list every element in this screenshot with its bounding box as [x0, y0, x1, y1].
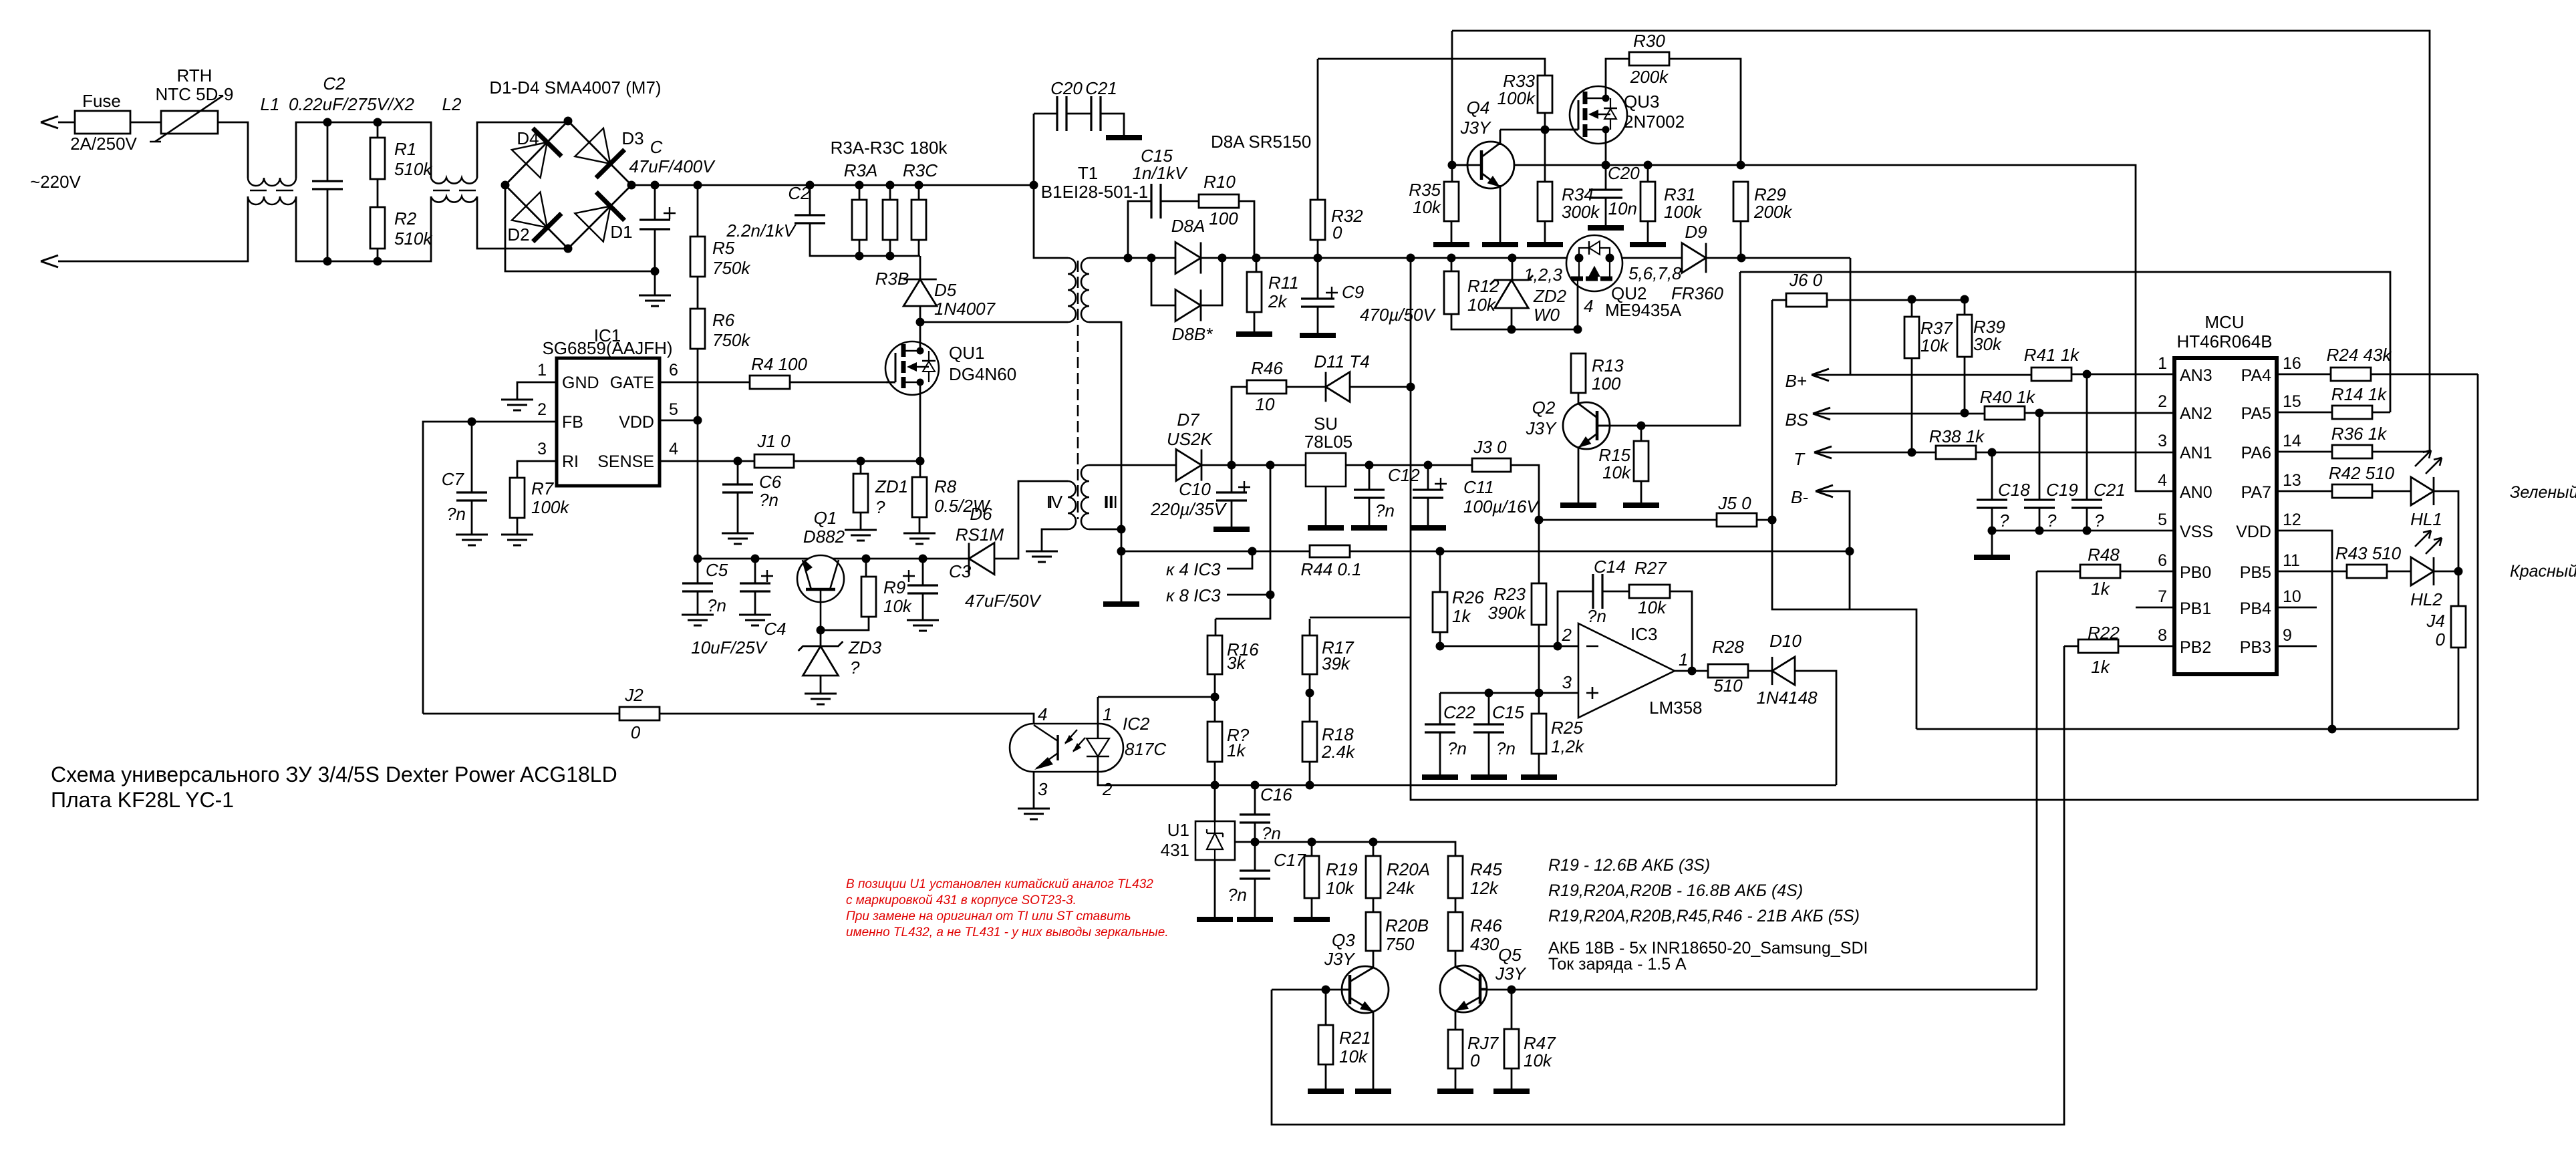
svg-text:R26: R26 [1452, 587, 1484, 607]
svg-text:C14: C14 [1594, 557, 1626, 577]
svg-text:300k: 300k [1562, 202, 1600, 222]
svg-text:Q3: Q3 [1332, 930, 1355, 950]
svg-text:R2: R2 [394, 208, 417, 229]
svg-text:T: T [1794, 449, 1806, 469]
ground [1623, 502, 1659, 508]
wire BS line to R14 PA5 [1740, 272, 2390, 412]
wire PB1 stub [2136, 607, 2174, 609]
junction [1365, 461, 1374, 470]
svg-text:430: 430 [1470, 934, 1499, 954]
junction [374, 118, 382, 127]
wire [994, 481, 1068, 559]
ground [1325, 486, 1327, 526]
svg-text:431: 431 [1161, 840, 1189, 860]
svg-text:10k: 10k [1638, 597, 1667, 617]
wire Q4 collector [1499, 130, 1501, 145]
junction [1308, 838, 1316, 847]
svg-text:J3Y: J3Y [1324, 949, 1355, 969]
junction [1124, 254, 1133, 263]
resistor R23 390k [1532, 583, 1546, 625]
wire Q2 base line [1597, 272, 1740, 426]
svg-text:PB0: PB0 [2180, 563, 2211, 582]
capacitor C4 10uF/25V [754, 559, 756, 583]
wire III bottom [1089, 529, 1121, 531]
svg-text:L2: L2 [442, 94, 462, 114]
wire Q3 base line [1272, 989, 1350, 991]
svg-text:C15: C15 [1492, 702, 1524, 722]
svg-text:1n/1kV: 1n/1kV [1133, 163, 1189, 183]
svg-text:4: 4 [1584, 296, 1593, 316]
junction [1251, 838, 1260, 847]
svg-text:Q5: Q5 [1498, 945, 1522, 965]
svg-text:C4: C4 [764, 619, 786, 639]
svg-text:R46: R46 [1251, 358, 1283, 378]
svg-text:C12: C12 [1388, 465, 1420, 485]
svg-text:R9: R9 [883, 577, 905, 597]
svg-text:7: 7 [2158, 587, 2167, 606]
svg-text:R6: R6 [712, 310, 735, 330]
svg-text:R42 510: R42 510 [2329, 463, 2395, 483]
svg-text:Плата KF28L YC-1: Плата KF28L YC-1 [51, 788, 234, 812]
svg-text:15: 15 [2283, 392, 2301, 411]
wire R20B to Q3 collector [1373, 951, 1375, 968]
svg-text:PB5: PB5 [2240, 563, 2271, 582]
svg-text:1,2,3: 1,2,3 [1524, 265, 1562, 285]
junction [1228, 461, 1236, 470]
svg-text:R41 1k: R41 1k [2024, 345, 2080, 365]
wire II bottom to return [1089, 322, 1121, 604]
svg-text:RTH: RTH [177, 65, 212, 86]
svg-text:R3A-R3C 180k: R3A-R3C 180k [831, 138, 948, 158]
svg-text:0: 0 [2436, 629, 2446, 650]
svg-text:10k: 10k [1524, 1050, 1553, 1070]
wire gate line [1500, 129, 1578, 131]
svg-text:D8A: D8A [1171, 216, 1205, 236]
junction FB node [468, 418, 476, 426]
diode D2 [512, 192, 547, 227]
svg-text:78L05: 78L05 [1304, 432, 1352, 452]
svg-text:1,2k: 1,2k [1551, 736, 1585, 756]
svg-text:2.4k: 2.4k [1321, 742, 1356, 762]
svg-text:4: 4 [2158, 471, 2167, 490]
resistor R37 10k [1911, 299, 1913, 317]
svg-text:T1: T1 [1078, 163, 1098, 183]
wire Q5 emitter to RJ7 [1455, 1011, 1457, 1030]
resistor R47 10k [1511, 990, 1513, 1029]
wire source line 247 [1452, 164, 1467, 166]
svg-text:817C: 817C [1125, 739, 1166, 759]
svg-text:SU: SU [1314, 414, 1338, 434]
svg-text:BS: BS [1785, 410, 1808, 430]
resistor R18 2.4k [1302, 722, 1317, 762]
svg-text:1k: 1k [1452, 606, 1471, 626]
svg-text:Q4: Q4 [1467, 98, 1490, 118]
svg-text:R20B: R20B [1385, 915, 1429, 935]
svg-text:0: 0 [1332, 223, 1342, 243]
capacitor C5 ?n [697, 559, 699, 583]
svg-text:D8B*: D8B* [1172, 324, 1213, 344]
junction [1644, 161, 1653, 170]
svg-text:3: 3 [2158, 432, 2167, 450]
svg-text:2N7002: 2N7002 [1624, 112, 1685, 132]
wire R16 top [1215, 619, 1217, 635]
core [1077, 261, 1079, 519]
svg-text:?n: ?n [707, 595, 726, 615]
ground [1294, 917, 1330, 922]
junction divider tap [1306, 689, 1314, 698]
svg-text:J4: J4 [2426, 611, 2445, 631]
svg-text:10k: 10k [1413, 197, 1442, 217]
junction [2083, 370, 2092, 379]
svg-text:1k: 1k [1227, 740, 1246, 760]
wire III top [1089, 464, 1176, 466]
svg-text:RS1M: RS1M [956, 525, 1004, 545]
transistor QU1 DG4N60 mosfet [885, 341, 939, 395]
resistor R34 300k [1538, 182, 1552, 221]
svg-text:к 4 IC3: к 4 IC3 [1166, 559, 1221, 579]
svg-text:ME9435A: ME9435A [1605, 300, 1682, 320]
svg-text:US2K: US2K [1167, 429, 1213, 449]
capacitor C11 100u/16V [1427, 465, 1429, 490]
wire VDD row [2277, 531, 2332, 729]
svg-text:10k: 10k [1602, 462, 1632, 482]
svg-text:10k: 10k [1339, 1046, 1369, 1066]
resistor R20B 750 [1373, 898, 1375, 912]
svg-text:III: III [1103, 492, 1118, 512]
svg-text:D7: D7 [1177, 410, 1200, 430]
svg-text:?: ? [2094, 511, 2104, 531]
svg-text:39k: 39k [1322, 654, 1351, 674]
ground [1521, 774, 1557, 780]
svg-text:L1: L1 [261, 94, 280, 114]
svg-text:При замене на оригинал от TI и: При замене на оригинал от TI или ST став… [846, 909, 1131, 923]
svg-text:VSS: VSS [2180, 523, 2213, 541]
svg-text:510: 510 [1713, 676, 1743, 696]
svg-text:B1EI28-501-1: B1EI28-501-1 [1041, 182, 1148, 202]
ground [1422, 774, 1458, 780]
wire [631, 184, 1034, 186]
svg-text:100µ/16V: 100µ/16V [1463, 496, 1540, 517]
junction [1211, 693, 1220, 702]
svg-text:R46: R46 [1470, 915, 1502, 935]
svg-text:GND: GND [562, 374, 599, 392]
svg-text:11: 11 [2283, 551, 2300, 570]
svg-text:100: 100 [1209, 208, 1238, 229]
junction [564, 117, 573, 126]
junction [734, 457, 742, 466]
svg-text:C18: C18 [1998, 480, 2030, 500]
ground [456, 535, 488, 545]
junction [1535, 689, 1544, 698]
svg-text:10k: 10k [883, 596, 913, 616]
op-amp IC3 LM358 [1578, 623, 1675, 718]
zener ZD1 ? [853, 474, 868, 513]
svg-text:C2: C2 [323, 74, 345, 94]
wire [1201, 464, 1306, 466]
junction [1768, 516, 1777, 525]
wire Q4 emitter [1499, 185, 1501, 242]
wire Q2 emitter [1578, 448, 1580, 502]
svg-text:J3 0: J3 0 [1473, 437, 1507, 457]
svg-text:1N4007: 1N4007 [934, 299, 996, 319]
wire D10 to feedback [1795, 671, 1836, 785]
wire QU3 source [1605, 130, 1607, 165]
wire R32 top line to R33 [1318, 59, 1545, 76]
wire drain to T1 primary bottom [920, 321, 1068, 323]
wire k8 vertical [1215, 465, 1270, 619]
ground [1026, 551, 1058, 562]
svg-text:R28: R28 [1712, 637, 1744, 657]
svg-text:AN1: AN1 [2180, 444, 2212, 462]
junction [1407, 383, 1415, 392]
ground [1018, 809, 1050, 819]
resistor R12 10k [1451, 258, 1453, 271]
resistor R7 100k [510, 478, 525, 518]
junction base node [817, 626, 825, 635]
svg-text:C9: C9 [1342, 282, 1364, 302]
svg-text:10n: 10n [1608, 198, 1637, 219]
junction [1248, 547, 1257, 556]
resistor R45 12k [1448, 856, 1463, 898]
svg-text:16: 16 [2283, 354, 2301, 373]
svg-text:SENSE: SENSE [597, 452, 654, 471]
ground [1527, 242, 1563, 247]
svg-text:C20: C20 [1608, 163, 1640, 183]
svg-text:R1: R1 [394, 139, 416, 159]
junction [1988, 527, 1997, 535]
resistor R11 2k [1256, 258, 1258, 272]
svg-text:4: 4 [1038, 704, 1047, 724]
svg-text:U1: U1 [1167, 820, 1189, 840]
svg-text:J5 0: J5 0 [1717, 493, 1751, 513]
svg-text:?: ? [1999, 511, 2009, 531]
junction [1908, 295, 1916, 304]
svg-text:R19: R19 [1326, 859, 1358, 879]
wire VDD vertical [697, 349, 699, 559]
svg-text:R27: R27 [1634, 558, 1667, 578]
wire pin1 up [1097, 697, 1099, 738]
svg-text:8: 8 [2158, 626, 2167, 645]
resistor R46 430 [1455, 898, 1457, 912]
wire [58, 122, 75, 124]
wire U1 ref line [1235, 842, 1455, 856]
junction [1508, 325, 1516, 334]
resistor RJ7 0 [1448, 1030, 1463, 1068]
svg-text:2: 2 [1102, 779, 1113, 799]
diode D4 [512, 142, 547, 178]
zener ZD2 W0 [1512, 258, 1514, 280]
svg-text:RI: RI [562, 452, 579, 471]
svg-text:R40 1k: R40 1k [1980, 387, 2036, 407]
svg-text:30k: 30k [1973, 334, 2003, 354]
resistor R29 200k [1733, 182, 1748, 221]
ground [1355, 1089, 1391, 1094]
ground [1106, 135, 1142, 140]
svg-text:PB1: PB1 [2180, 599, 2211, 618]
svg-text:470µ/50V: 470µ/50V [1360, 305, 1437, 325]
wire [130, 122, 161, 124]
svg-text:24k: 24k [1386, 878, 1416, 898]
svg-text:IC2: IC2 [1123, 714, 1150, 734]
ground [1410, 525, 1446, 531]
svg-text:47uF/400V: 47uF/400V [629, 156, 716, 176]
wire rail to B+ corner [1850, 258, 1852, 375]
svg-text:R24 43k: R24 43k [2327, 345, 2393, 365]
svg-text:R10: R10 [1203, 172, 1236, 192]
svg-text:390k: 390k [1488, 603, 1527, 623]
svg-text:750k: 750k [712, 258, 751, 278]
svg-text:Красный: Красный [2510, 562, 2576, 581]
resistor R1 510k [377, 122, 379, 138]
svg-text:C22: C22 [1443, 702, 1475, 722]
ground [1471, 774, 1507, 780]
svg-text:B+: B+ [1785, 371, 1807, 391]
svg-text:PB4: PB4 [2240, 599, 2271, 618]
wire emitter line C5 C4 Q1 C3 D6 [698, 558, 969, 560]
svg-text:VDD: VDD [2236, 523, 2271, 541]
junction [1448, 161, 1457, 170]
junction drain node [916, 318, 925, 327]
capacitor C6 ?n [737, 461, 739, 484]
svg-text:C7: C7 [442, 469, 465, 489]
svg-text:?n: ?n [1496, 738, 1516, 758]
wire [1239, 201, 1254, 258]
svg-text:750: 750 [1385, 934, 1415, 954]
svg-text:2A/250V: 2A/250V [70, 134, 137, 154]
junction [1688, 667, 1697, 676]
svg-text:FR360: FR360 [1671, 283, 1724, 303]
resistor R25 1,2k [1532, 714, 1546, 754]
resistor R20A 24k [1373, 842, 1375, 856]
resistor R35 10k [1444, 182, 1459, 221]
svg-text:14: 14 [2283, 432, 2301, 450]
junction [1908, 448, 1916, 457]
wire J6 left down J5 net [1772, 300, 1916, 729]
diode D3 [575, 128, 610, 164]
svg-text:Ток заряда - 1.5 А: Ток заряда - 1.5 А [1548, 955, 1687, 974]
svg-text:ZD2: ZD2 [1533, 286, 1567, 306]
svg-text:D8A SR5150: D8A SR5150 [1211, 132, 1311, 152]
wire [1350, 386, 1411, 388]
svg-text:C11: C11 [1463, 477, 1494, 497]
wire pin2 line [1440, 645, 1578, 647]
svg-text:J3Y: J3Y [1526, 418, 1557, 438]
svg-text:12k: 12k [1470, 878, 1499, 898]
svg-text:R11: R11 [1268, 273, 1299, 293]
wire [296, 196, 431, 261]
wire pin3 line [1440, 692, 1578, 694]
junction [1554, 642, 1562, 651]
svg-text:R19,R20A,R20B,R45,R46 - 21В АК: R19,R20A,R20B,R45,R46 - 21В АКБ (5S) [1548, 907, 1860, 925]
svg-text:1k: 1k [2091, 657, 2110, 677]
svg-text:MCU: MCU [2204, 312, 2244, 332]
junction [1574, 325, 1582, 334]
svg-text:510k: 510k [394, 229, 433, 249]
svg-text:PA6: PA6 [2241, 444, 2271, 462]
svg-text:C: C [650, 137, 663, 157]
svg-text:IV: IV [1046, 492, 1063, 512]
svg-text:HL1: HL1 [2410, 509, 2442, 529]
ground [1300, 333, 1336, 338]
resistor R5 750k [697, 185, 699, 237]
svg-text:0: 0 [1470, 1050, 1480, 1070]
svg-text:D6: D6 [970, 504, 992, 524]
svg-text:AN2: AN2 [2180, 404, 2212, 423]
ground [1560, 502, 1596, 508]
resistor R26 1k [1439, 551, 1441, 592]
junction [1535, 516, 1544, 525]
svg-text:R12: R12 [1467, 276, 1499, 296]
svg-text:3: 3 [1038, 779, 1048, 799]
svg-text:FB: FB [562, 413, 583, 432]
svg-text:R14 1k: R14 1k [2331, 384, 2388, 404]
junction [2328, 725, 2337, 734]
svg-text:QU1: QU1 [949, 343, 984, 363]
svg-text:SG6859(AAJFH): SG6859(AAJFH) [542, 338, 672, 358]
resistor R13 100 [1571, 353, 1586, 393]
svg-text:13: 13 [2283, 471, 2301, 490]
junction [2454, 567, 2463, 576]
wire base line [1452, 164, 1467, 166]
ground [845, 530, 877, 541]
junction [1737, 254, 1746, 263]
svg-text:10: 10 [2283, 587, 2301, 606]
main mid rail [1310, 257, 1568, 259]
junction [1846, 547, 1854, 556]
wire [218, 122, 248, 178]
junction [1314, 254, 1322, 263]
svg-text:R13: R13 [1592, 355, 1624, 376]
svg-text:5: 5 [669, 400, 678, 419]
svg-text:Fuse: Fuse [82, 91, 121, 111]
wire gate [790, 382, 895, 384]
svg-text:J6 0: J6 0 [1789, 270, 1823, 290]
wire gate line QU2 [1512, 329, 1578, 331]
resistor R2 510k [370, 207, 385, 249]
ground [1308, 1089, 1344, 1094]
junction [1485, 689, 1493, 698]
resistor R39 30k [1964, 299, 1966, 315]
wire R30 right [1669, 59, 1741, 165]
svg-text:10uF/25V: 10uF/25V [691, 637, 768, 658]
svg-text:R45: R45 [1470, 859, 1502, 879]
wire top line from PA6 R36 [1452, 31, 2430, 452]
resistor R33 100k [1538, 76, 1552, 113]
svg-text:D1: D1 [610, 222, 632, 242]
svg-text:6: 6 [669, 361, 678, 380]
svg-text:6: 6 [2158, 551, 2167, 570]
junction [1211, 781, 1220, 790]
node AC line input arrow top [41, 116, 58, 128]
svg-text:J3Y: J3Y [1495, 964, 1526, 984]
wire [697, 277, 699, 309]
svg-text:200k: 200k [1753, 202, 1793, 222]
junction [1436, 642, 1445, 651]
svg-text:R21: R21 [1339, 1028, 1371, 1048]
svg-text:100: 100 [1592, 374, 1621, 394]
svg-text:D2: D2 [507, 225, 529, 245]
svg-text:R5: R5 [712, 238, 735, 258]
svg-text:J2: J2 [624, 685, 643, 705]
svg-text:LM358: LM358 [1649, 698, 1703, 718]
svg-text:R25: R25 [1551, 718, 1583, 738]
ground [1437, 1089, 1473, 1094]
svg-text:PB3: PB3 [2240, 638, 2271, 657]
svg-text:ZD1: ZD1 [875, 476, 908, 496]
junction [1637, 422, 1646, 430]
ground [1433, 242, 1469, 247]
wire Q3 emitter to gnd [1373, 1012, 1375, 1089]
